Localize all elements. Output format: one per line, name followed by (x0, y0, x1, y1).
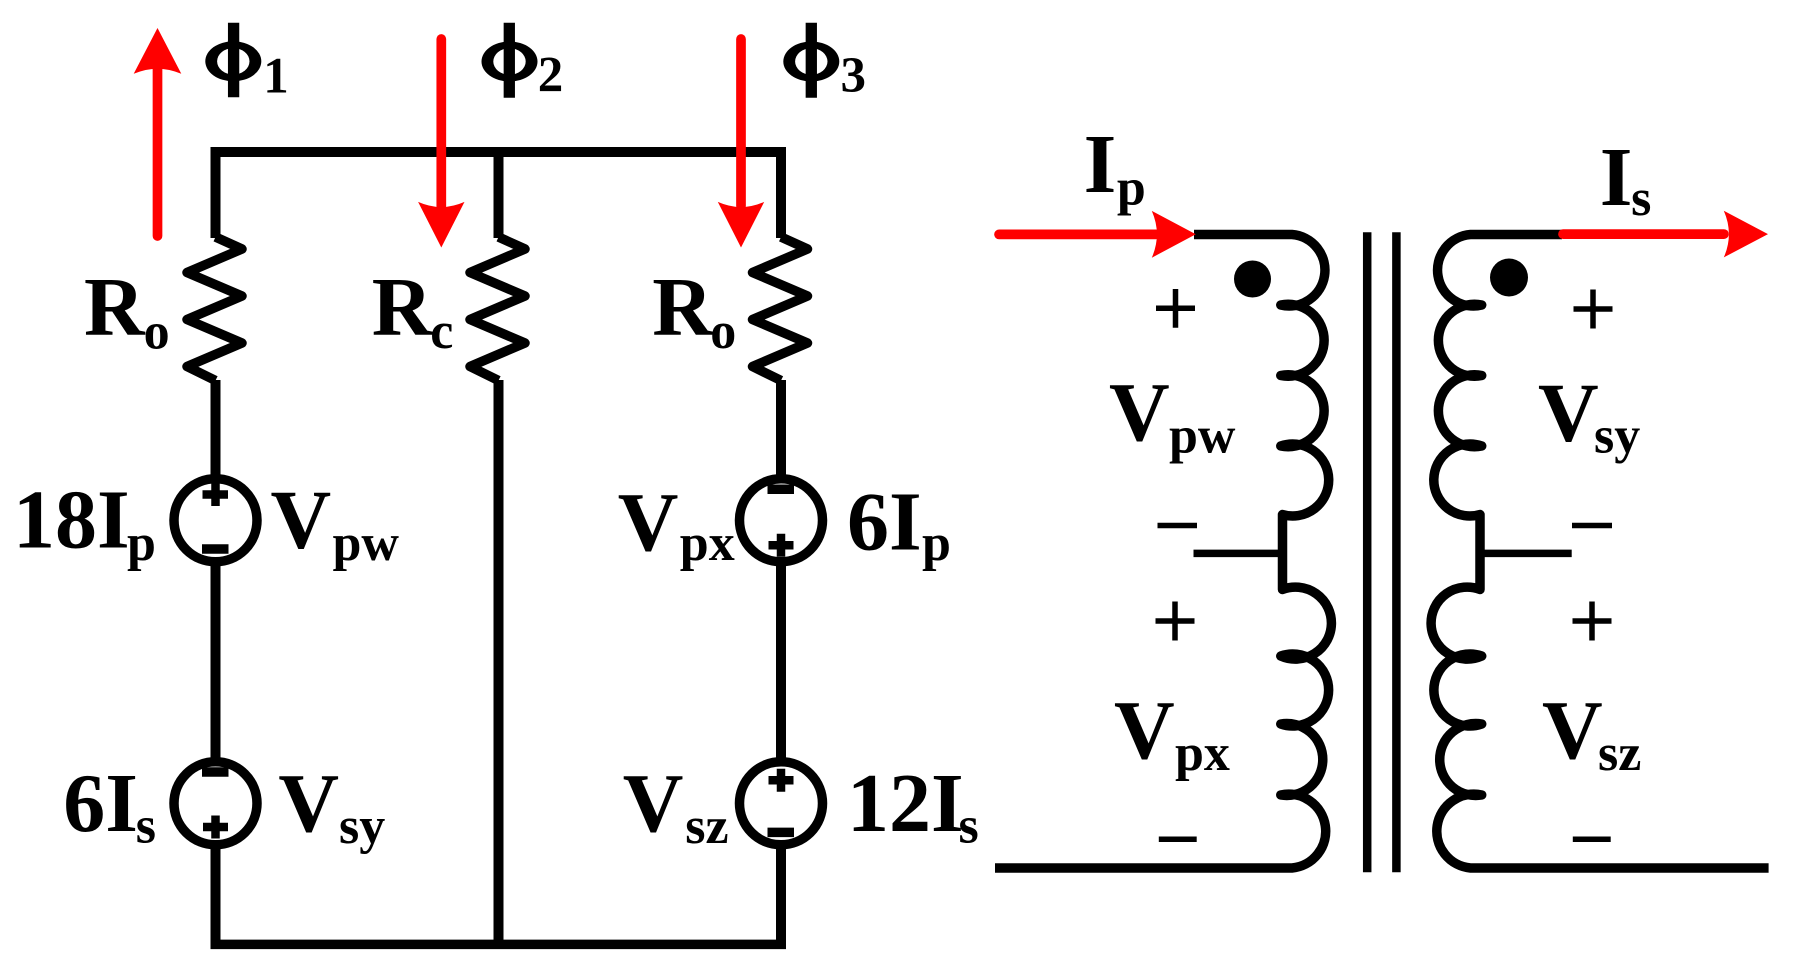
svg-text:s: s (136, 798, 156, 855)
svg-text:s: s (959, 798, 979, 855)
svg-text:sy: sy (339, 798, 385, 855)
svg-text:sy: sy (1594, 408, 1640, 465)
svg-text:1: 1 (263, 49, 289, 105)
svg-text:I: I (1600, 131, 1633, 224)
svg-text:sz: sz (1598, 725, 1641, 782)
svg-text:3: 3 (841, 48, 867, 104)
svg-text:V: V (271, 474, 332, 567)
svg-text:px: px (680, 515, 735, 572)
svg-text:V: V (1538, 367, 1599, 460)
svg-text:R: R (84, 261, 146, 354)
svg-text:V: V (623, 757, 684, 850)
svg-text:6I: 6I (847, 476, 922, 569)
svg-text:V: V (618, 476, 679, 569)
svg-text:V: V (1114, 684, 1175, 777)
svg-text:12I: 12I (847, 757, 964, 850)
svg-text:pw: pw (1169, 408, 1236, 465)
svg-text:o: o (144, 304, 170, 361)
svg-text:2: 2 (538, 47, 564, 103)
svg-text:p: p (1117, 160, 1146, 217)
svg-text:p: p (922, 515, 951, 572)
svg-text:sz: sz (685, 798, 728, 855)
svg-text:s: s (1631, 170, 1651, 227)
svg-text:V: V (278, 757, 339, 850)
svg-text:c: c (430, 303, 453, 360)
svg-text:V: V (1109, 366, 1170, 459)
svg-text:pw: pw (333, 515, 400, 572)
svg-text:px: px (1175, 725, 1230, 782)
svg-text:I: I (1084, 118, 1117, 211)
svg-text:18I: 18I (13, 474, 130, 567)
svg-text:p: p (127, 515, 156, 572)
svg-text:V: V (1542, 684, 1603, 777)
svg-text:R: R (652, 261, 714, 354)
svg-text:6I: 6I (63, 757, 138, 850)
svg-text:R: R (372, 261, 434, 354)
svg-text:o: o (710, 303, 736, 360)
